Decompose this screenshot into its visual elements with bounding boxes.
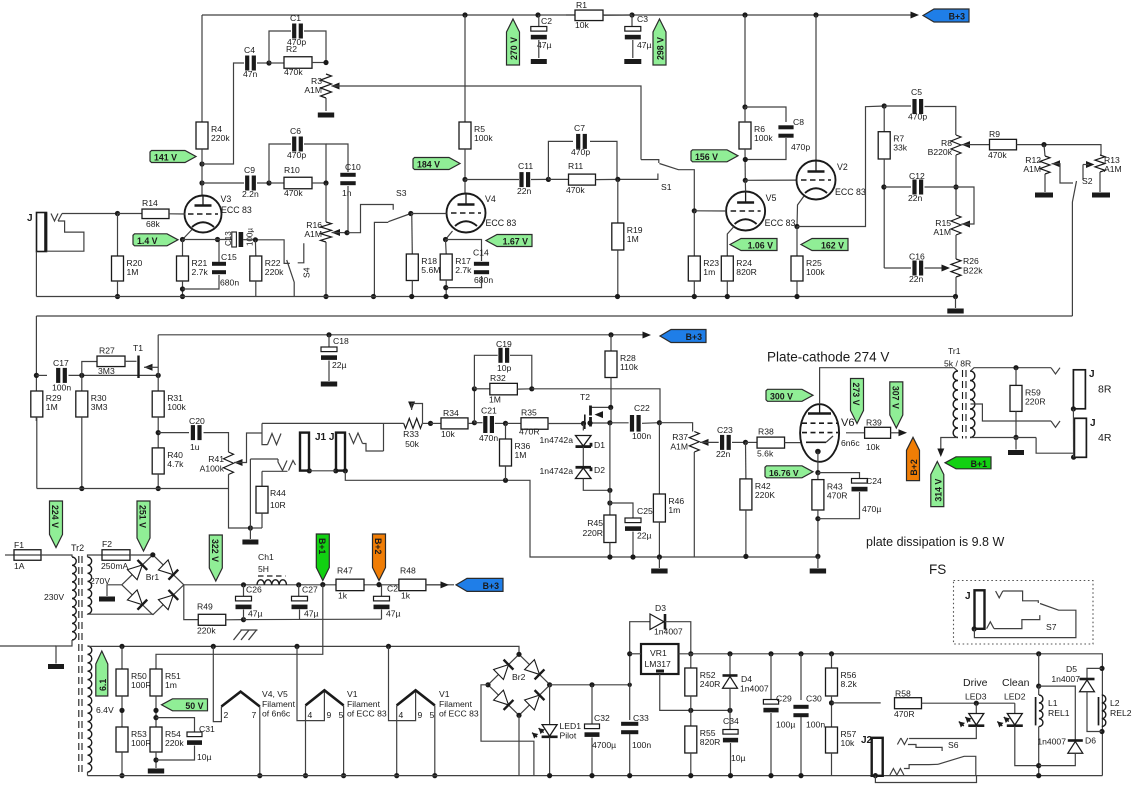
svg-text:F2: F2 bbox=[102, 539, 112, 549]
svg-text:C19: C19 bbox=[496, 339, 512, 349]
svg-text:298 V: 298 V bbox=[656, 37, 666, 60]
svg-text:R14: R14 bbox=[142, 198, 158, 208]
svg-text:5: 5 bbox=[339, 710, 344, 720]
svg-text:R9: R9 bbox=[989, 129, 1000, 139]
svg-text:470n: 470n bbox=[479, 433, 498, 443]
svg-text:VR1: VR1 bbox=[650, 648, 667, 658]
svg-text:C29: C29 bbox=[776, 694, 792, 704]
svg-text:A1M: A1M bbox=[304, 85, 322, 95]
svg-text:8.2k: 8.2k bbox=[841, 679, 858, 689]
svg-text:B+3: B+3 bbox=[949, 12, 965, 22]
svg-text:10k: 10k bbox=[575, 20, 590, 30]
svg-text:3M3: 3M3 bbox=[98, 366, 115, 376]
svg-text:D6: D6 bbox=[1085, 736, 1096, 746]
svg-text:C9: C9 bbox=[244, 165, 255, 175]
svg-text:22µ: 22µ bbox=[332, 360, 347, 370]
svg-text:470k: 470k bbox=[988, 150, 1007, 160]
svg-text:Clean: Clean bbox=[1002, 677, 1030, 689]
svg-text:LED1: LED1 bbox=[560, 721, 582, 731]
svg-text:5H: 5H bbox=[258, 564, 269, 574]
svg-text:314 V: 314 V bbox=[933, 478, 943, 501]
svg-text:D3: D3 bbox=[655, 603, 666, 613]
svg-text:C4: C4 bbox=[244, 45, 255, 55]
svg-text:C34: C34 bbox=[723, 716, 739, 726]
svg-text:V4, V5: V4, V5 bbox=[262, 689, 288, 699]
svg-text:ECC 83: ECC 83 bbox=[221, 205, 252, 215]
svg-text:D1: D1 bbox=[594, 440, 605, 450]
svg-text:16.76 V: 16.76 V bbox=[769, 468, 799, 478]
svg-text:C13: C13 bbox=[224, 231, 233, 246]
svg-text:T2: T2 bbox=[580, 392, 590, 402]
svg-text:1A: 1A bbox=[14, 561, 25, 571]
svg-text:22n: 22n bbox=[716, 449, 731, 459]
svg-text:B220k: B220k bbox=[928, 147, 953, 157]
svg-text:REL1: REL1 bbox=[1048, 708, 1070, 718]
svg-text:B+3: B+3 bbox=[686, 332, 702, 342]
svg-text:Tr2: Tr2 bbox=[71, 543, 84, 553]
svg-text:5.6M: 5.6M bbox=[421, 265, 440, 275]
svg-text:1m: 1m bbox=[668, 505, 680, 515]
svg-text:10k: 10k bbox=[866, 442, 881, 452]
svg-text:V4: V4 bbox=[485, 194, 496, 204]
svg-text:Plate-cathode 274 V: Plate-cathode 274 V bbox=[767, 350, 889, 365]
svg-text:L2: L2 bbox=[1110, 698, 1120, 708]
svg-text:2.7k: 2.7k bbox=[455, 265, 472, 275]
svg-text:50k: 50k bbox=[405, 439, 420, 449]
svg-text:110k: 110k bbox=[620, 362, 639, 372]
svg-text:220k: 220k bbox=[265, 267, 284, 277]
svg-text:22n: 22n bbox=[909, 274, 924, 284]
svg-text:C10: C10 bbox=[345, 162, 361, 172]
svg-text:C16: C16 bbox=[909, 252, 925, 262]
svg-text:V2: V2 bbox=[837, 162, 848, 172]
svg-text:V6: V6 bbox=[841, 417, 854, 429]
svg-text:C33: C33 bbox=[633, 713, 649, 723]
svg-text:1n: 1n bbox=[342, 188, 352, 198]
svg-text:S6: S6 bbox=[948, 740, 959, 750]
svg-text:6.1: 6.1 bbox=[98, 679, 108, 691]
svg-text:470p: 470p bbox=[571, 147, 590, 157]
svg-text:plate dissipation is 9.8 W: plate dissipation is 9.8 W bbox=[866, 535, 1004, 549]
svg-text:470R: 470R bbox=[894, 709, 915, 719]
svg-text:Drive: Drive bbox=[963, 677, 988, 689]
svg-text:3M3: 3M3 bbox=[91, 402, 108, 412]
svg-text:V1: V1 bbox=[439, 689, 450, 699]
svg-text:A1M: A1M bbox=[1023, 164, 1041, 174]
svg-text:100n: 100n bbox=[52, 383, 71, 393]
svg-text:470p: 470p bbox=[908, 112, 927, 122]
svg-text:47µ: 47µ bbox=[248, 609, 263, 619]
svg-text:1.4 V: 1.4 V bbox=[137, 236, 158, 246]
svg-text:C27: C27 bbox=[302, 585, 318, 595]
svg-text:10µ: 10µ bbox=[731, 753, 746, 763]
svg-text:S4: S4 bbox=[302, 267, 312, 278]
svg-text:470µ: 470µ bbox=[862, 504, 881, 514]
svg-text:156 V: 156 V bbox=[695, 152, 718, 162]
svg-text:4: 4 bbox=[308, 710, 313, 720]
svg-text:L1: L1 bbox=[1048, 698, 1058, 708]
svg-text:1M: 1M bbox=[489, 395, 501, 405]
svg-text:470R: 470R bbox=[519, 427, 540, 437]
svg-text:1k: 1k bbox=[338, 591, 348, 601]
svg-text:250mA: 250mA bbox=[101, 561, 128, 571]
svg-text:141 V: 141 V bbox=[154, 153, 177, 163]
svg-text:10R: 10R bbox=[270, 500, 286, 510]
svg-text:C12: C12 bbox=[909, 171, 925, 181]
svg-text:68k: 68k bbox=[146, 219, 161, 229]
svg-text:R26: R26 bbox=[963, 256, 979, 266]
svg-text:R1: R1 bbox=[576, 0, 587, 10]
svg-text:240R: 240R bbox=[700, 679, 721, 689]
svg-text:4R: 4R bbox=[1098, 432, 1112, 444]
svg-text:C3: C3 bbox=[637, 14, 648, 24]
svg-text:1n4007: 1n4007 bbox=[654, 627, 683, 637]
svg-text:R11: R11 bbox=[568, 161, 583, 171]
svg-text:R58: R58 bbox=[895, 689, 911, 699]
svg-text:ECC 83: ECC 83 bbox=[486, 218, 517, 228]
svg-text:10k: 10k bbox=[441, 429, 456, 439]
svg-text:R44: R44 bbox=[270, 488, 286, 498]
svg-text:22n: 22n bbox=[517, 186, 532, 196]
svg-text:C1: C1 bbox=[290, 13, 301, 23]
svg-text:5.6k: 5.6k bbox=[757, 449, 774, 459]
svg-text:1M: 1M bbox=[515, 450, 527, 460]
svg-text:R48: R48 bbox=[400, 566, 416, 576]
svg-text:100µ: 100µ bbox=[246, 228, 255, 246]
svg-text:V3: V3 bbox=[221, 194, 232, 204]
svg-text:C32: C32 bbox=[594, 713, 610, 723]
svg-text:S1: S1 bbox=[661, 182, 672, 192]
svg-text:100R: 100R bbox=[131, 738, 152, 748]
svg-text:A1M: A1M bbox=[933, 227, 951, 237]
svg-text:FS: FS bbox=[929, 562, 946, 577]
svg-text:LED2: LED2 bbox=[1004, 692, 1026, 702]
svg-text:B+3: B+3 bbox=[483, 581, 499, 591]
svg-text:470k: 470k bbox=[284, 188, 303, 198]
svg-text:5: 5 bbox=[430, 710, 435, 720]
svg-text:307 V: 307 V bbox=[890, 386, 900, 409]
svg-text:B+2: B+2 bbox=[909, 459, 919, 475]
svg-text:2: 2 bbox=[224, 710, 229, 720]
svg-text:C17: C17 bbox=[53, 358, 69, 368]
svg-text:9: 9 bbox=[418, 710, 423, 720]
svg-text:1m: 1m bbox=[703, 267, 715, 277]
svg-text:680n: 680n bbox=[220, 278, 239, 288]
svg-text:ECC 83: ECC 83 bbox=[765, 218, 796, 228]
svg-text:LM317: LM317 bbox=[645, 659, 671, 669]
svg-text:R33: R33 bbox=[403, 429, 419, 439]
svg-text:of ECC 83: of ECC 83 bbox=[347, 709, 387, 719]
svg-text:V5: V5 bbox=[766, 193, 777, 203]
svg-text:220K: 220K bbox=[755, 490, 775, 500]
svg-text:D5: D5 bbox=[1066, 664, 1077, 674]
svg-text:C20: C20 bbox=[189, 416, 205, 426]
svg-text:1n4007: 1n4007 bbox=[1037, 737, 1066, 747]
svg-text:184 V: 184 V bbox=[417, 160, 440, 170]
svg-text:10k: 10k bbox=[841, 738, 856, 748]
svg-text:C8: C8 bbox=[793, 117, 804, 127]
svg-text:C22: C22 bbox=[634, 403, 650, 413]
svg-text:J1 J: J1 J bbox=[315, 432, 334, 443]
svg-text:R35: R35 bbox=[521, 408, 537, 418]
svg-text:R45: R45 bbox=[587, 518, 603, 528]
svg-text:Ch1: Ch1 bbox=[258, 552, 274, 562]
svg-text:100k: 100k bbox=[167, 402, 186, 412]
svg-text:C15: C15 bbox=[221, 252, 237, 262]
svg-text:R34: R34 bbox=[443, 408, 459, 418]
svg-text:1M: 1M bbox=[127, 267, 139, 277]
svg-text:100n: 100n bbox=[806, 720, 825, 730]
svg-text:S2: S2 bbox=[1082, 176, 1093, 186]
svg-text:C14: C14 bbox=[473, 248, 489, 258]
svg-text:R41: R41 bbox=[208, 454, 224, 464]
svg-text:A1M: A1M bbox=[670, 442, 688, 452]
svg-text:6.4V: 6.4V bbox=[96, 705, 114, 715]
svg-text:C23: C23 bbox=[717, 425, 733, 435]
svg-text:470p: 470p bbox=[287, 150, 306, 160]
svg-text:7: 7 bbox=[252, 710, 257, 720]
svg-text:T1: T1 bbox=[133, 343, 143, 353]
svg-text:1k: 1k bbox=[401, 591, 411, 601]
svg-text:470k: 470k bbox=[566, 185, 585, 195]
svg-text:251 V: 251 V bbox=[138, 505, 148, 528]
svg-text:22n: 22n bbox=[908, 193, 923, 203]
svg-text:1n4007: 1n4007 bbox=[740, 684, 769, 694]
svg-text:8R: 8R bbox=[1098, 384, 1112, 396]
svg-text:470R: 470R bbox=[827, 491, 848, 501]
svg-text:100k: 100k bbox=[754, 133, 773, 143]
svg-text:R10: R10 bbox=[284, 165, 300, 175]
svg-text:Filament: Filament bbox=[347, 699, 381, 709]
svg-text:D2: D2 bbox=[594, 465, 605, 475]
svg-text:Pilot: Pilot bbox=[560, 731, 577, 741]
svg-text:1m: 1m bbox=[165, 680, 177, 690]
svg-text:47µ: 47µ bbox=[637, 40, 652, 50]
svg-text:C25: C25 bbox=[637, 506, 653, 516]
svg-text:F1: F1 bbox=[14, 540, 24, 550]
svg-text:A1M: A1M bbox=[304, 229, 322, 239]
svg-text:220k: 220k bbox=[197, 626, 216, 636]
svg-text:J: J bbox=[1089, 369, 1095, 380]
svg-text:B+2: B+2 bbox=[373, 538, 383, 554]
svg-text:273 V: 273 V bbox=[851, 383, 861, 406]
svg-text:Br2: Br2 bbox=[512, 672, 526, 682]
svg-text:4.7k: 4.7k bbox=[167, 459, 184, 469]
svg-text:270 V: 270 V bbox=[509, 37, 519, 60]
svg-text:R37: R37 bbox=[672, 432, 688, 442]
svg-text:300 V: 300 V bbox=[770, 391, 793, 401]
svg-text:1u: 1u bbox=[190, 442, 200, 452]
svg-text:6n6c: 6n6c bbox=[841, 438, 860, 448]
svg-text:1n4742a: 1n4742a bbox=[540, 435, 574, 445]
svg-text:R47: R47 bbox=[337, 566, 353, 576]
svg-text:100R: 100R bbox=[131, 680, 152, 690]
svg-text:J: J bbox=[965, 591, 971, 602]
svg-text:224 V: 224 V bbox=[50, 505, 60, 528]
svg-text:V1: V1 bbox=[347, 689, 358, 699]
svg-text:50 V: 50 V bbox=[185, 701, 203, 711]
svg-text:Filament: Filament bbox=[439, 699, 473, 709]
svg-text:820R: 820R bbox=[736, 267, 757, 277]
svg-text:470k: 470k bbox=[284, 67, 303, 77]
svg-text:1.67 V: 1.67 V bbox=[503, 237, 529, 247]
svg-text:A100k: A100k bbox=[200, 464, 225, 474]
svg-text:4700µ: 4700µ bbox=[592, 740, 616, 750]
svg-text:Tr1: Tr1 bbox=[948, 346, 961, 356]
svg-text:C24: C24 bbox=[866, 476, 882, 486]
svg-text:47µ: 47µ bbox=[386, 609, 401, 619]
svg-text:4: 4 bbox=[399, 710, 404, 720]
svg-text:S7: S7 bbox=[1046, 622, 1057, 632]
svg-text:C30: C30 bbox=[806, 694, 822, 704]
svg-text:470p: 470p bbox=[791, 142, 810, 152]
svg-text:220R: 220R bbox=[582, 528, 603, 538]
svg-text:100n: 100n bbox=[632, 431, 651, 441]
svg-text:820R: 820R bbox=[700, 737, 721, 747]
svg-text:1n4007: 1n4007 bbox=[1051, 674, 1080, 684]
svg-text:B+1: B+1 bbox=[971, 459, 987, 469]
svg-text:1M: 1M bbox=[627, 234, 639, 244]
svg-text:of 6n6c: of 6n6c bbox=[262, 709, 291, 719]
svg-text:Br1: Br1 bbox=[146, 572, 160, 582]
svg-text:R49: R49 bbox=[197, 602, 213, 612]
svg-text:C11: C11 bbox=[518, 161, 533, 171]
svg-text:5k / 8R: 5k / 8R bbox=[944, 359, 971, 369]
svg-text:J: J bbox=[27, 213, 33, 224]
svg-text:100k: 100k bbox=[474, 133, 493, 143]
svg-text:B22k: B22k bbox=[963, 266, 983, 276]
svg-text:680n: 680n bbox=[474, 275, 493, 285]
svg-text:2.7k: 2.7k bbox=[192, 267, 209, 277]
svg-text:A1M: A1M bbox=[1104, 164, 1122, 174]
svg-text:162 V: 162 V bbox=[821, 241, 844, 251]
svg-text:1.06 V: 1.06 V bbox=[748, 241, 774, 251]
svg-text:100n: 100n bbox=[632, 740, 651, 750]
svg-text:1M: 1M bbox=[46, 402, 58, 412]
svg-text:C2: C2 bbox=[541, 16, 552, 26]
svg-text:C31: C31 bbox=[199, 724, 215, 734]
svg-text:R27: R27 bbox=[99, 346, 115, 356]
svg-text:J: J bbox=[1090, 418, 1096, 429]
svg-text:D4: D4 bbox=[741, 674, 752, 684]
svg-text:B+1: B+1 bbox=[317, 538, 327, 554]
svg-text:C6: C6 bbox=[290, 126, 301, 136]
svg-text:REL2: REL2 bbox=[1110, 708, 1132, 718]
svg-text:R2: R2 bbox=[286, 44, 297, 54]
svg-text:1n4742a: 1n4742a bbox=[540, 466, 574, 476]
svg-text:C5: C5 bbox=[911, 87, 922, 97]
svg-text:C18: C18 bbox=[333, 336, 349, 346]
svg-text:33k: 33k bbox=[893, 143, 908, 153]
svg-text:C7: C7 bbox=[574, 123, 585, 133]
svg-text:100k: 100k bbox=[806, 267, 825, 277]
svg-text:100µ: 100µ bbox=[776, 720, 795, 730]
svg-text:47n: 47n bbox=[243, 69, 258, 79]
svg-text:of ECC 83: of ECC 83 bbox=[439, 709, 479, 719]
svg-text:230V: 230V bbox=[44, 592, 64, 602]
svg-text:220k: 220k bbox=[165, 738, 184, 748]
svg-text:LED3: LED3 bbox=[965, 692, 987, 702]
svg-text:C21: C21 bbox=[481, 406, 497, 416]
svg-text:9: 9 bbox=[327, 710, 332, 720]
svg-text:47µ: 47µ bbox=[304, 609, 319, 619]
svg-text:220k: 220k bbox=[211, 133, 230, 143]
svg-text:10µ: 10µ bbox=[197, 752, 212, 762]
svg-text:R32: R32 bbox=[490, 373, 506, 383]
svg-text:322 V: 322 V bbox=[210, 539, 220, 562]
svg-text:ECC 83: ECC 83 bbox=[835, 187, 866, 197]
svg-text:10p: 10p bbox=[497, 363, 512, 373]
svg-text:22µ: 22µ bbox=[637, 531, 652, 541]
svg-text:R38: R38 bbox=[758, 427, 774, 437]
svg-text:R39: R39 bbox=[866, 418, 882, 428]
svg-text:Filament: Filament bbox=[262, 699, 296, 709]
svg-text:S3: S3 bbox=[396, 188, 407, 198]
svg-text:C26: C26 bbox=[246, 585, 262, 595]
svg-text:2.2n: 2.2n bbox=[242, 189, 259, 199]
svg-text:220R: 220R bbox=[1025, 396, 1046, 406]
